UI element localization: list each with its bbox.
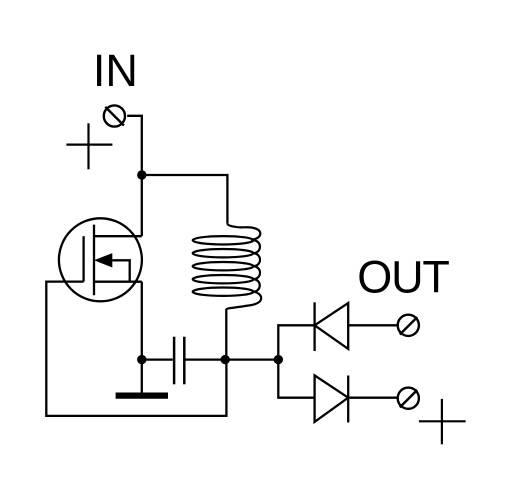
wire MOSFET source to node B	[141, 282, 143, 360]
cross mark top-left	[66, 123, 112, 169]
wire diode D2 to terminal OUT2	[348, 397, 398, 399]
svg-text:OUT: OUT	[357, 252, 449, 303]
cross mark bottom-right	[419, 399, 466, 444]
wire node A to inductor top	[142, 175, 228, 224]
node A junction	[137, 170, 146, 179]
terminal IN	[104, 105, 125, 126]
ground	[116, 360, 168, 396]
diode D2	[315, 375, 349, 422]
wire inductor L1 bottom to node C	[225, 310, 227, 360]
wire gate feedback loop	[46, 282, 226, 416]
node B junction	[137, 355, 146, 364]
capacitor C1	[174, 337, 184, 385]
wire node D to diode D1	[278, 325, 314, 359]
wire terminal IN to node A	[127, 116, 142, 175]
diode D1	[315, 302, 349, 351]
node D junction	[274, 355, 283, 364]
wire node B to capacitor C1	[142, 358, 173, 360]
terminal OUT2	[398, 388, 419, 409]
inductor L1	[193, 224, 262, 310]
wire capacitor C1 to node C	[185, 358, 225, 360]
wire diode D1 to terminal OUT1	[348, 324, 398, 326]
wire node C to node D	[225, 358, 278, 360]
wire node D to diode D2	[278, 360, 314, 398]
terminal OUT1	[398, 315, 419, 336]
wire node A to MOSFET drain	[141, 175, 143, 236]
svg-text:IN: IN	[93, 45, 138, 96]
transistor Q1 (MOSFET)	[59, 218, 142, 301]
node C junction	[221, 355, 230, 364]
